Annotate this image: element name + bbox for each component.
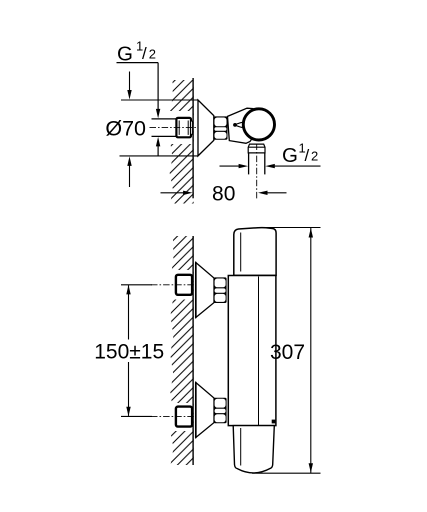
wall surface line (top view)	[192, 78, 194, 198]
flow mark (black dot on body edge)	[272, 420, 276, 424]
temperature pointer	[233, 122, 245, 128]
body contour line	[258, 277, 260, 426]
bottom cap contour line	[240, 428, 242, 466]
G 1/2 label (right, outlet)	[282, 141, 318, 168]
svg-text:307: 307	[270, 341, 305, 364]
top inlet centerline	[151, 284, 194, 286]
svg-text:Ø70: Ø70	[105, 117, 146, 141]
mixer bottom cap	[233, 426, 274, 473]
G1/2 leader underline	[117, 62, 159, 64]
307 dimension	[252, 228, 321, 474]
bottom union hex nut	[214, 398, 227, 424]
wall hatching (top view)	[168, 80, 194, 204]
G1/2 lower arrow up to pipe bottom	[156, 137, 160, 156]
top cap contour line	[240, 233, 242, 272]
150±15 dimension	[121, 285, 152, 417]
bottom inlet centerline	[151, 415, 194, 417]
top escutcheon cone	[196, 263, 214, 318]
top S-union square nut	[176, 275, 192, 295]
outlet G1/2 dimension arrows	[220, 164, 321, 168]
Ø70 dimension extension lines	[121, 99, 199, 101]
svg-text:/: /	[305, 146, 310, 165]
supply pipe centerline	[150, 127, 197, 129]
Ø70 lower arrow	[127, 156, 131, 187]
80 dimension	[161, 191, 287, 195]
G1/2 leader arrow down to pipe top	[156, 63, 160, 119]
svg-text:G: G	[282, 144, 298, 167]
svg-text:150±15: 150±15	[94, 340, 164, 363]
union hex nut (top view)	[213, 116, 227, 139]
wall surface line (bottom view)	[192, 236, 194, 465]
Ø70 upper arrow	[127, 72, 131, 100]
handle circle (top view)	[243, 109, 274, 140]
wall hatching (bottom view)	[168, 236, 194, 465]
top union hex nut	[214, 277, 227, 303]
escutcheon cone (top view)	[198, 100, 214, 156]
mixer top cap (handle)	[234, 228, 276, 276]
outlet block under handle	[248, 144, 265, 153]
bottom S-union square nut	[176, 407, 192, 427]
supply pipe stub	[152, 119, 177, 136]
outlet pipe	[249, 153, 265, 175]
svg-text:2: 2	[311, 149, 318, 164]
svg-text:80: 80	[212, 182, 235, 205]
G 1/2 label (top left)	[117, 39, 156, 66]
svg-text:2: 2	[149, 47, 156, 62]
svg-text:/: /	[142, 44, 147, 63]
S-union square nut (top view)	[176, 118, 192, 137]
bottom escutcheon cone	[196, 383, 214, 438]
outlet pipe centerline	[256, 144, 258, 200]
mixer main body	[228, 276, 276, 426]
valve body (top view)	[228, 108, 257, 143]
